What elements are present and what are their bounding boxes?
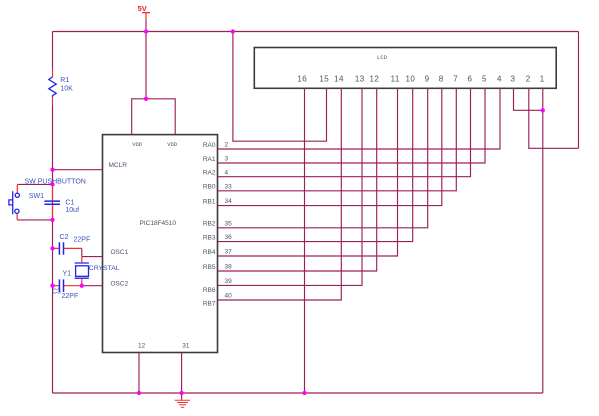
svg-text:22PF: 22PF [62,293,79,300]
svg-text:5: 5 [482,75,487,84]
svg-text:34: 34 [225,198,233,205]
svg-text:7: 7 [453,75,458,84]
wire pin 31 to ground rail [181,353,183,394]
svg-text:RB0: RB0 [203,184,216,191]
svg-text:4: 4 [497,75,502,84]
svg-text:RA0: RA0 [203,142,216,149]
svg-text:C2: C2 [60,234,69,241]
svg-text:2: 2 [225,142,229,149]
wire switch loop top [17,183,52,185]
svg-text:10K: 10K [60,86,73,93]
svg-text:RB4: RB4 [203,249,216,256]
junction node: top rail / 5V [144,29,148,33]
capacitor C2 [53,247,82,249]
svg-text:CRYSTAL: CRYSTAL [89,265,120,272]
crystal Y1 [81,257,83,286]
svg-text:35: 35 [225,220,233,227]
svg-text:10: 10 [406,75,416,84]
svg-text:33: 33 [225,183,233,190]
wire C2 jog to OSC1 [82,248,103,256]
wire pin 12 to ground rail [138,353,140,394]
svg-text:9: 9 [425,75,430,84]
svg-text:OSC1: OSC1 [111,249,129,256]
svg-text:14: 14 [334,75,344,84]
svg-text:RB2: RB2 [203,221,216,228]
capacitor C3 [53,285,82,287]
svg-text:Y1: Y1 [63,270,72,277]
svg-text:RB1: RB1 [203,198,216,205]
svg-text:R1: R1 [60,77,69,84]
svg-text:4: 4 [225,169,229,176]
IC U1 PIC18F4510 body [103,135,218,353]
wire RB0 to LCD pin 7 [218,88,457,191]
svg-text:40: 40 [225,293,233,300]
svg-text:12: 12 [370,75,380,84]
svg-text:38: 38 [225,264,233,271]
capacitor C1 [52,185,54,220]
svg-text:SW PUSHBUTTON: SW PUSHBUTTON [25,179,86,186]
junction node: C3 / bus [50,284,54,288]
junction node: LCD pin16 / ground rail [302,391,306,395]
svg-text:13: 13 [355,75,365,84]
resistor R1 [52,69,54,104]
wire RA2 to LCD pin 6 [218,88,471,176]
wire 5V rail to VDD goalpost [145,32,147,99]
svg-text:SW1: SW1 [29,193,44,200]
wire RB5 to LCD pin 12 [218,88,377,271]
wire OSC2 [82,285,103,287]
svg-text:1: 1 [540,75,545,84]
svg-text:RA2: RA2 [203,170,216,177]
svg-text:11: 11 [391,75,400,84]
svg-text:10uf: 10uf [65,207,79,214]
svg-text:3: 3 [510,75,515,84]
svg-text:36: 36 [225,234,233,241]
LCD module body [254,48,556,89]
svg-text:LCD: LCD [377,54,388,61]
svg-text:OSC2: OSC2 [111,281,129,288]
svg-text:C1: C1 [65,200,74,207]
wire left bus [52,32,54,394]
junction node: switch top / bus [50,182,54,186]
junction node: top rail / dropper [231,29,235,33]
junction node: VDD goalpost [144,97,148,101]
wire right rail [578,32,580,149]
switch SW1 pushbutton [16,185,18,220]
svg-text:RB6: RB6 [203,287,216,294]
wire RB4 to LCD pin 11 [218,88,398,256]
wire RA1 to LCD pin 5 [218,88,486,163]
svg-text:RB3: RB3 [203,234,216,241]
wire switch loop bottom [17,219,52,221]
junction node: MCLR / bus [50,168,54,172]
wire MCLR to left bus [53,169,103,171]
wire RB2 to LCD pin 9 [218,88,428,228]
svg-text:31: 31 [182,342,190,349]
wire RA0 to LCD pin 4 [218,88,501,149]
wire LCD pin 2 to right rail [529,88,579,148]
wire LCD pin 1 to ground rail [542,88,544,393]
svg-text:MCLR: MCLR [109,162,128,169]
power symbol 5V [142,13,150,20]
wire top rail dropper to LCD pin 15 [233,32,327,142]
svg-text:RB5: RB5 [203,264,216,271]
svg-text:PIC18F4510: PIC18F4510 [140,220,177,227]
svg-text:VDD: VDD [167,141,178,148]
svg-text:37: 37 [225,249,233,256]
wire RB6 to LCD pin 13 [218,88,363,285]
svg-text:RA1: RA1 [203,156,216,163]
junction node: C2 / bus [50,246,54,250]
svg-text:5V: 5V [138,4,147,13]
svg-text:VDD: VDD [132,141,143,148]
wire VDD goalpost [132,99,176,135]
svg-text:C3: C3 [52,289,61,296]
svg-text:39: 39 [225,278,233,285]
wire LCD pin 3 to pin 1 [514,88,543,110]
wire RB1 to LCD pin 8 [218,88,442,205]
wire RB7 to LCD pin 14 [218,88,342,300]
wire bottom ground rail [53,392,543,394]
svg-text:22PF: 22PF [74,236,91,243]
ground symbol [181,393,183,400]
svg-text:15: 15 [319,75,329,84]
svg-text:3: 3 [225,156,229,163]
junction node: pin 31 / ground rail [179,391,183,395]
junction node: crystal / OSC2 [80,284,84,288]
junction node: switch bottom / bus [50,218,54,222]
svg-text:6: 6 [467,75,472,84]
junction node: LCD pin3 / pin1 [541,108,545,112]
wire top rail (5V) [53,31,579,33]
wire LCD pin 16 to ground rail [304,88,306,393]
svg-text:12: 12 [138,342,146,349]
svg-text:2: 2 [526,75,531,84]
svg-text:16: 16 [297,75,307,84]
svg-text:RB7: RB7 [203,301,216,308]
wire 5V stem to top rail [145,19,147,31]
svg-text:8: 8 [439,75,444,84]
wire RB3 to LCD pin 10 [218,88,413,241]
junction node: pin 12 / ground rail [137,391,141,395]
